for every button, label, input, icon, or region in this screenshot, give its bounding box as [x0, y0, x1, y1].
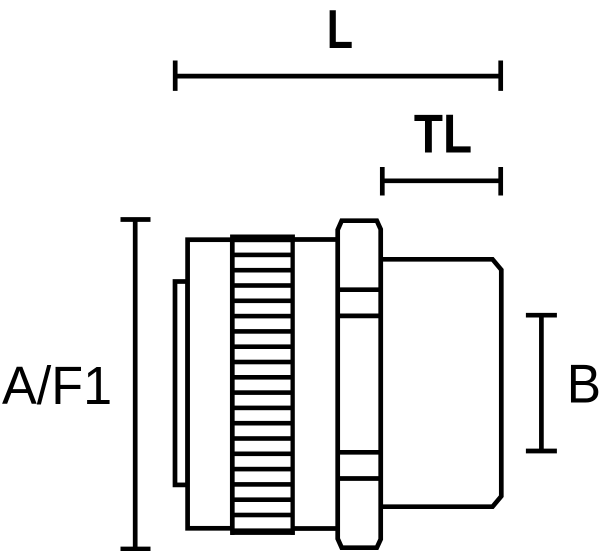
dimension TL line — [382, 167, 500, 196]
hex nut face lines — [338, 290, 381, 479]
knurled ring: stripes — [234, 253, 292, 518]
knurled ring: top band — [230, 235, 295, 243]
dimension A/F1 line — [121, 220, 151, 550]
mid collar between knurl and hex — [293, 240, 338, 529]
dimension L line — [175, 61, 501, 91]
hex nut outline — [338, 221, 381, 548]
svg-text:L: L — [327, 0, 353, 60]
rear body cylinder — [188, 240, 233, 529]
rear compression nut small flange (thin rect, far left) — [175, 282, 188, 485]
svg-text:TL: TL — [414, 102, 472, 164]
threaded end body (right) — [381, 259, 502, 506]
knurled ring: walls — [230, 235, 234, 535]
dimension B line — [526, 315, 557, 451]
svg-text:B: B — [567, 354, 600, 415]
knurled ring: bottom band — [230, 528, 295, 535]
svg-text:A/F1: A/F1 — [2, 356, 112, 416]
